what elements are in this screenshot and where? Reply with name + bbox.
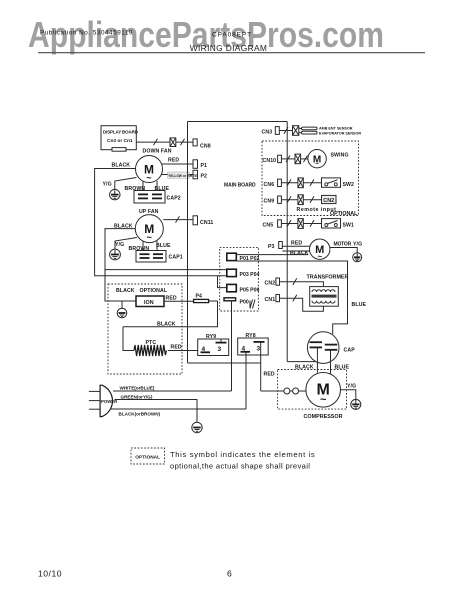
connector CN5: [263, 220, 282, 229]
svg-text:RED: RED: [168, 158, 179, 164]
svg-text:CAP1: CAP1: [169, 255, 183, 261]
wire CN10 to swing motor: [281, 158, 295, 160]
svg-text:~: ~: [317, 252, 322, 261]
capacitor CAP2: [134, 191, 181, 204]
ground compressor: [351, 399, 361, 409]
svg-text:WHITE(orBLUE): WHITE(orBLUE): [120, 386, 155, 391]
wire PTC to RY9: [168, 350, 198, 352]
svg-text:This symbol indicates the elem: This symbol indicates the element is: [170, 450, 315, 459]
svg-text:DOWN FAN: DOWN FAN: [143, 149, 172, 155]
connector CN2 transformer: [265, 278, 280, 287]
wire CN3 to sensor: [279, 130, 292, 132]
power plug POWER: [89, 385, 118, 416]
svg-text:P05 P06: P05 P06: [240, 287, 260, 293]
wire motor Y/G to ground: [330, 248, 358, 254]
switch SW1: [322, 219, 355, 229]
svg-text:CAP: CAP: [344, 348, 356, 354]
wire CN1 to transformer: [280, 298, 324, 311]
wire up fan to CN11: [163, 219, 193, 221]
ground ION: [117, 301, 127, 318]
svg-text:OPTIONAL: OPTIONAL: [135, 455, 160, 461]
switch SW2: [322, 178, 355, 188]
svg-text:P00: P00: [240, 300, 249, 306]
svg-text:~: ~: [320, 394, 327, 406]
svg-text:CN8: CN8: [200, 144, 211, 150]
motor UP FAN M: [135, 215, 163, 243]
wire P3 red to motor: [282, 245, 310, 247]
svg-text:CN1: CN1: [265, 297, 276, 303]
dashed optional box left: [108, 284, 182, 374]
overload protector: [261, 388, 306, 394]
dashed OPTIONAL box right: [262, 141, 359, 216]
ground motor: [353, 253, 362, 262]
main board outline: [188, 122, 288, 364]
sensor probes: [299, 127, 317, 134]
wire Y/G up fan: [115, 238, 137, 250]
svg-text:CN5: CN5: [263, 223, 274, 229]
connector plug on CN10 wire: [295, 154, 301, 164]
svg-text:P03 P04: P03 P04: [240, 272, 260, 278]
legend text: [170, 450, 315, 471]
motor SWING M: [308, 150, 349, 169]
wire plug to CN2 box: [303, 199, 321, 201]
wire plug to SW2: [303, 182, 321, 184]
svg-text:CN6: CN6: [264, 182, 275, 188]
svg-text:TRANSFORMER: TRANSFORMER: [307, 275, 349, 281]
svg-text:BLACK(orBROWN): BLACK(orBROWN): [119, 411, 161, 416]
svg-text:BLACK: BLACK: [112, 163, 131, 169]
svg-text:RED: RED: [264, 371, 275, 377]
wire to main board CN8: [176, 141, 193, 143]
ground up fan: [110, 249, 121, 260]
svg-text:optional,the actual shape shal: optional,the actual shape shall prevail: [170, 462, 310, 471]
wire plug to swing motor: [301, 158, 309, 160]
svg-text:~: ~: [315, 161, 319, 168]
svg-text:AMB ENT SENSOR: AMB ENT SENSOR: [319, 127, 353, 131]
relay RY8: [238, 333, 269, 355]
wire motor to cap2 blue: [156, 181, 158, 191]
svg-text:CAP2: CAP2: [167, 196, 181, 202]
slash marks on CN8 wire: [154, 139, 158, 146]
wire board edge to cap black: [287, 361, 316, 363]
svg-text:BLACK: BLACK: [116, 288, 135, 294]
capacitor CAP1: [136, 251, 183, 263]
main board bottom step wire: [123, 301, 218, 327]
connector CN11: [193, 216, 213, 226]
svg-text:COMPRESSOR: COMPRESSOR: [304, 414, 343, 420]
wire up fan to cap1 blue: [156, 241, 158, 251]
connector plug on CN6 wire: [298, 178, 303, 188]
svg-text:UP FAN: UP FAN: [139, 209, 159, 215]
label AMB ENT SENSOR / EVAPORATOR SENSOR: [319, 127, 361, 136]
svg-text:~: ~: [147, 233, 152, 243]
svg-text:P3: P3: [268, 244, 275, 250]
wire CN6 to SW2: [281, 182, 298, 184]
wire into P05 P06: [218, 276, 227, 288]
connector P1: [193, 160, 207, 169]
ground down fan: [110, 189, 120, 199]
svg-text:OPTIONAL: OPTIONAL: [140, 288, 168, 294]
capacitor CAP dual: [307, 332, 355, 364]
connector P03 P04: [227, 269, 260, 278]
svg-text:Publication No. 5304459119: Publication No. 5304459119: [40, 30, 133, 37]
wire rail P02 lower to cap: [236, 261, 347, 334]
svg-text:Cn3 or Cn1: Cn3 or Cn1: [107, 138, 133, 144]
svg-text:RED: RED: [166, 295, 177, 301]
svg-text:BLUE: BLUE: [352, 302, 367, 308]
connector P05 P06: [227, 284, 260, 293]
svg-text:RED: RED: [171, 344, 182, 350]
wire motor to cap2 brown: [142, 181, 144, 191]
motor DOWN FAN M: [136, 156, 163, 184]
svg-text:CN11: CN11: [200, 220, 213, 226]
wire black up fan: [105, 229, 227, 270]
label YELLOW or WHITE hatched: [168, 172, 197, 178]
svg-text:SW1: SW1: [343, 223, 355, 229]
svg-text:BLUE: BLUE: [156, 243, 171, 249]
connector plug symbol on display wire: [170, 138, 176, 147]
svg-text:3: 3: [218, 346, 222, 353]
ground power green: [192, 422, 202, 432]
wire P3 black to motor: [282, 250, 309, 252]
svg-text:ION: ION: [144, 300, 154, 306]
svg-text:Y/G: Y/G: [115, 242, 124, 248]
connector CN6: [264, 179, 282, 188]
wire CN9 to CN2 remote: [281, 199, 298, 201]
svg-text:Y/G: Y/G: [103, 182, 112, 188]
wire ION to P4: [164, 300, 194, 302]
svg-text:BLACK: BLACK: [290, 250, 309, 256]
wire green power to ground: [115, 400, 198, 423]
svg-text:CN10: CN10: [263, 158, 277, 164]
svg-text:3: 3: [257, 345, 261, 352]
svg-text:OPTIONAL: OPTIONAL: [330, 211, 358, 217]
connector CN10: [263, 155, 282, 164]
wire RY8 pin4 down to black power: [245, 352, 247, 409]
connector CN1 transformer: [265, 295, 280, 304]
svg-text:SWING: SWING: [331, 153, 349, 159]
wire rail P01 upper: [236, 254, 308, 256]
svg-text:Y/G: Y/G: [347, 383, 356, 389]
relay RY9: [198, 334, 229, 356]
wire up fan to cap1 brown: [142, 241, 144, 251]
svg-text:SW2: SW2: [343, 182, 355, 188]
remote input CN2 box: [322, 195, 337, 204]
wire CN2 to transformer: [280, 282, 324, 287]
svg-text:WIRING DIAGRAM: WIRING DIAGRAM: [190, 43, 267, 53]
wire cap right pin down: [330, 350, 332, 374]
svg-text:CN2: CN2: [265, 281, 276, 287]
svg-text:10/10: 10/10: [38, 569, 62, 579]
dashed P0x connector box: [220, 247, 259, 311]
svg-text:BLACK: BLACK: [157, 321, 176, 327]
ION generator box: [136, 296, 164, 307]
slash on CN11 wire: [176, 216, 180, 223]
svg-text:PTC: PTC: [146, 340, 157, 346]
connector plug on CN5 wire: [298, 219, 303, 229]
svg-text:P4: P4: [196, 294, 203, 300]
svg-text:CN3: CN3: [262, 130, 273, 136]
connector CN3 sensor: [262, 127, 280, 136]
connector P3: [268, 242, 282, 250]
connector P4: [194, 294, 209, 303]
motor MOTOR M: [310, 239, 352, 261]
svg-text:~: ~: [146, 173, 151, 183]
svg-text:6: 6: [227, 569, 232, 579]
wire motor to P2: [161, 174, 193, 176]
connector CN9: [264, 196, 282, 205]
connector P2: [193, 170, 207, 179]
wire CN5 to SW1: [281, 223, 298, 225]
transformer TRANSFORMER: [307, 275, 349, 307]
connector CN8: [193, 139, 211, 150]
compressor dashed box: [278, 370, 347, 410]
wire motor to P1: [162, 163, 193, 165]
wire compressor Y/G: [341, 390, 356, 400]
wire black power: [110, 408, 246, 410]
connector plug on CN9 wire: [298, 195, 303, 205]
wire plug to SW1: [303, 223, 321, 225]
svg-text:CN2: CN2: [323, 198, 334, 204]
connector plug on sensor wire: [293, 126, 299, 136]
svg-text:MAIN BOARD: MAIN BOARD: [224, 183, 256, 189]
svg-text:P2: P2: [201, 174, 208, 180]
connector P00: [224, 298, 249, 306]
svg-text:Y/G: Y/G: [353, 242, 362, 248]
hatch mark near P00: [250, 300, 255, 309]
wire cap left pin down: [316, 348, 318, 373]
wire black up fan to ION: [105, 268, 136, 301]
wire RY8 pin3 down to compressor red: [260, 342, 262, 391]
svg-text:EVAPORATOR SENSOR: EVAPORATOR SENSOR: [319, 132, 361, 136]
motor COMPRESSOR M: [306, 373, 341, 408]
node wire bottom rail: [188, 362, 261, 364]
display board DISPLAY BOARD: [101, 126, 139, 152]
wire black down fan: [95, 169, 227, 276]
wire P00 down to white power wire: [231, 301, 233, 391]
svg-text:P1: P1: [201, 163, 208, 169]
svg-text:CN9: CN9: [264, 199, 275, 205]
svg-text:DISPLAY BOARD: DISPLAY BOARD: [103, 130, 139, 135]
svg-text:RED: RED: [291, 240, 302, 246]
svg-text:GREEN(orY/G): GREEN(orY/G): [121, 394, 153, 399]
svg-text:MOTOR: MOTOR: [334, 242, 352, 248]
wire Y/G down fan: [115, 178, 137, 190]
legend optional box: [131, 448, 165, 464]
header rule: [38, 52, 425, 54]
svg-text:CPA08EPT: CPA08EPT: [212, 32, 252, 39]
wire white power: [113, 390, 232, 392]
PTC heater coil: [134, 345, 166, 356]
connector P01 P02: [227, 253, 260, 262]
wire display board to CN8: [136, 141, 170, 143]
wire into PTC: [123, 327, 134, 351]
wire P4 to board: [209, 300, 218, 302]
